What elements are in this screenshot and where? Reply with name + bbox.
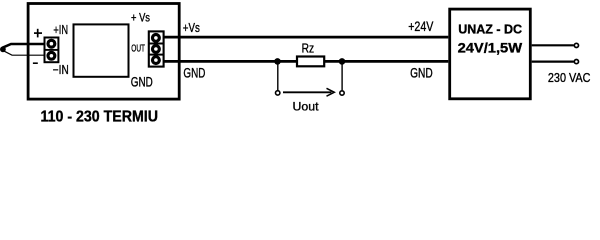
terminal circle GND [153, 57, 160, 64]
svg-text:110 - 230 TERMIU: 110 - 230 TERMIU [41, 109, 159, 125]
inner box [74, 24, 129, 76]
arrow Uout [283, 91, 332, 93]
svg-text:GND: GND [183, 66, 205, 81]
svg-text:GND: GND [131, 75, 153, 90]
wire GND line [164, 60, 449, 63]
svg-text:+24V: +24V [408, 18, 434, 34]
resistor Rz [297, 57, 324, 67]
svg-text:OUT: OUT [131, 42, 145, 54]
svg-text:+ Vs: + Vs [131, 12, 150, 24]
open terminal Uout right [340, 91, 344, 95]
outer box transmitter module [28, 4, 179, 100]
left terminal block [45, 38, 59, 63]
junction dot right of Rz [339, 58, 346, 65]
svg-text:−IN: −IN [53, 63, 69, 77]
stub to Uout right [341, 61, 343, 90]
right terminal block [149, 31, 164, 66]
wire AC line 2 [532, 60, 574, 62]
wire probe positive thick [3, 44, 44, 48]
svg-text:+Vs: +Vs [183, 21, 200, 35]
wire +Vs to +24V [164, 36, 449, 39]
terminal circle + input [48, 40, 55, 47]
label - [33, 62, 38, 64]
svg-text:UNAZ - DC: UNAZ - DC [458, 21, 522, 36]
wire AC line 1 [532, 44, 574, 46]
junction dot left of Rz [274, 58, 281, 65]
wire probe negative thin [4, 51, 44, 55]
open terminal AC 2 [574, 60, 578, 64]
svg-text:Rz: Rz [302, 41, 315, 55]
svg-text:Uout: Uout [293, 100, 320, 114]
label + [34, 32, 42, 34]
open terminal Uout left [276, 91, 280, 95]
thermocouple probe junction dot [0, 46, 6, 52]
svg-text:+IN: +IN [53, 23, 68, 37]
svg-text:230 VAC: 230 VAC [548, 70, 591, 85]
stub to Uout left [277, 61, 279, 90]
terminal circle OUT [153, 46, 160, 53]
svg-text:24V/1,5W: 24V/1,5W [458, 39, 523, 55]
open terminal AC 1 [574, 43, 578, 47]
terminal circle - input [48, 52, 55, 59]
svg-text:GND: GND [410, 66, 433, 81]
power supply box UNAZ-DC [450, 9, 531, 99]
terminal circle +Vs [153, 35, 160, 42]
